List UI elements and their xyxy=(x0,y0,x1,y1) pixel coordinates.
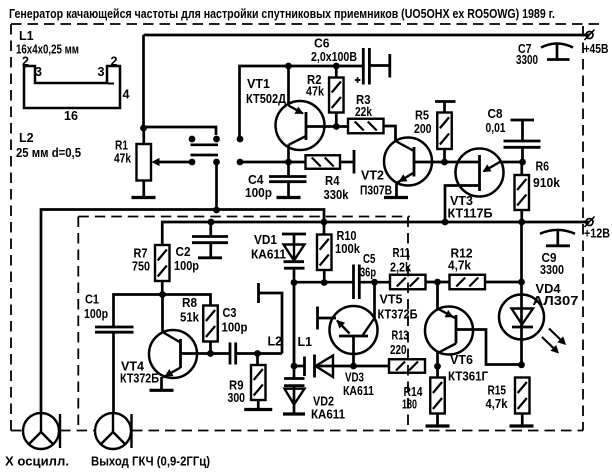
node VD1-L1 junction xyxy=(291,279,298,286)
switch contact row2 xyxy=(189,159,244,166)
label C2 xyxy=(174,245,199,273)
label R10 xyxy=(335,229,360,256)
label VT2 xyxy=(360,169,392,198)
capacitor C9 xyxy=(540,230,575,246)
svg-text:VT6: VT6 xyxy=(450,353,473,367)
dashed enclosure right edge xyxy=(582,26,584,431)
svg-text:100p: 100p xyxy=(174,259,199,273)
node VT1 emitter junction xyxy=(285,63,292,70)
label C9 xyxy=(540,251,564,277)
label R5 xyxy=(414,109,432,137)
svg-text:51k: 51k xyxy=(180,311,199,325)
jack X oscilloscope xyxy=(23,413,60,449)
resistor R2 xyxy=(329,66,344,127)
label R7 xyxy=(132,247,150,274)
diode VD1 xyxy=(282,234,306,283)
VT1 collector lead xyxy=(289,136,307,162)
resistor R15 xyxy=(515,378,530,426)
svg-text:2: 2 xyxy=(22,55,29,69)
resistor R7 xyxy=(155,245,170,295)
diode VD2 xyxy=(284,366,305,414)
ground R14 xyxy=(426,424,450,427)
svg-text:3: 3 xyxy=(98,65,105,79)
label VT3 xyxy=(448,194,493,221)
capacitor C5 xyxy=(354,265,360,300)
resistor R5 xyxy=(435,102,456,163)
label C5 xyxy=(360,252,376,280)
node VT6 emitter junction xyxy=(434,279,441,286)
resistor R6 xyxy=(515,162,530,222)
svg-text:R4: R4 xyxy=(325,174,340,188)
node R2 top junction xyxy=(333,63,340,70)
svg-text:+12В: +12В xyxy=(584,227,610,241)
svg-text:910k: 910k xyxy=(533,176,560,190)
svg-text:R11: R11 xyxy=(393,246,411,260)
dim 2 right xyxy=(111,55,118,69)
wire VD4 column xyxy=(520,222,523,365)
wire R1 top to switch xyxy=(144,127,217,135)
coil L1 outline drawing xyxy=(24,66,120,108)
svg-text:VT2: VT2 xyxy=(361,169,384,183)
label C8 xyxy=(486,107,506,135)
label VD3 xyxy=(343,371,374,399)
svg-text:+45В: +45В xyxy=(584,42,609,56)
wire C3 to L2 xyxy=(236,352,282,355)
wire upper feed xyxy=(240,66,364,139)
label C1 xyxy=(84,293,108,322)
svg-text:C6: C6 xyxy=(314,37,330,51)
svg-text:R1: R1 xyxy=(115,139,128,153)
svg-text:25 мм d=0,5: 25 мм d=0,5 xyxy=(16,146,81,160)
dashed enclosure top edge xyxy=(11,23,600,25)
wire VT3 emitter row xyxy=(445,161,480,164)
svg-text:L2: L2 xyxy=(19,131,34,145)
label VD4 xyxy=(533,282,579,308)
VT5 emitter arrow xyxy=(337,320,350,334)
node VD4 junction xyxy=(518,279,525,286)
svg-text:П307В: П307В xyxy=(360,184,392,198)
svg-text:750: 750 xyxy=(132,260,150,274)
inner dashed divider xyxy=(407,217,409,431)
svg-text:C8: C8 xyxy=(488,107,503,121)
ground R15 xyxy=(510,424,534,427)
label R4 xyxy=(324,174,349,202)
switch contact row1 xyxy=(189,136,244,143)
svg-text:X осцилл.: X осцилл. xyxy=(5,455,69,469)
resistor R3 xyxy=(348,119,384,134)
VT1 base lead xyxy=(306,125,348,128)
label 16x4x0,25 мм xyxy=(16,43,79,57)
svg-text:КА611: КА611 xyxy=(251,248,286,262)
resistor R11 xyxy=(390,275,426,290)
svg-text:L2: L2 xyxy=(268,335,283,349)
inner dashed box top edge xyxy=(78,216,410,218)
wire oscillator row xyxy=(294,281,390,284)
svg-text:VT5: VT5 xyxy=(380,293,403,307)
svg-text:47k: 47k xyxy=(114,152,131,166)
wire rail A xyxy=(41,210,324,414)
wire +12V rail xyxy=(162,222,589,245)
VT4 collector lead xyxy=(163,295,181,343)
ground R9 xyxy=(244,408,272,411)
svg-text:Выход ГКЧ (0,9-2ГГц): Выход ГКЧ (0,9-2ГГц) xyxy=(91,455,210,469)
VT3 b1 wire xyxy=(500,161,523,164)
svg-text:3300: 3300 xyxy=(540,263,564,277)
node switch-railA junction xyxy=(213,207,220,214)
svg-text:C3: C3 xyxy=(223,306,237,320)
svg-text:3300: 3300 xyxy=(516,53,538,67)
ground R1 xyxy=(132,196,156,199)
svg-text:VD2: VD2 xyxy=(313,395,334,409)
label VD1 xyxy=(251,233,286,262)
svg-text:Генератор качающейся частоты д: Генератор качающейся частоты для настрой… xyxy=(9,7,555,21)
VT5 base lead xyxy=(318,317,337,320)
resistor R8 xyxy=(203,306,218,354)
label C7 xyxy=(516,42,538,67)
VT5 emitter lead xyxy=(352,336,355,366)
wire switch pole2 down xyxy=(215,162,218,210)
label L1 xyxy=(19,29,34,43)
wire VD3-R13 row xyxy=(354,365,390,368)
label VT6 xyxy=(448,353,488,384)
node R5 bottom junction xyxy=(441,159,448,166)
svg-text:3: 3 xyxy=(35,65,42,79)
resistor R1 potentiometer xyxy=(137,128,152,197)
svg-text:100k: 100k xyxy=(335,242,360,256)
VT2 base bar xyxy=(413,147,416,177)
VT2 emitter lead xyxy=(397,173,415,198)
transistor VT2 circle xyxy=(384,138,432,186)
svg-text:220: 220 xyxy=(390,343,407,357)
transistor VT4 circle xyxy=(149,330,197,378)
switch blade1 xyxy=(191,143,219,146)
transistor VT1 circle xyxy=(276,101,325,150)
label R8 xyxy=(180,296,199,325)
resistor R13 xyxy=(389,359,425,373)
svg-text:R7: R7 xyxy=(134,247,148,261)
svg-text:КА611: КА611 xyxy=(343,384,374,398)
dim 4 xyxy=(123,88,130,102)
svg-text:0,01: 0,01 xyxy=(486,121,506,135)
svg-text:47k: 47k xyxy=(306,85,324,99)
node C2 top junction xyxy=(208,219,215,226)
dim 2 left xyxy=(22,55,29,69)
svg-text:4: 4 xyxy=(123,88,130,102)
label C3 xyxy=(222,306,248,335)
svg-text:R10: R10 xyxy=(337,229,357,243)
capacitor C8 xyxy=(504,120,541,162)
terminal +45V xyxy=(585,30,595,41)
svg-text:КТ117Б: КТ117Б xyxy=(448,207,493,221)
diode VD4 triangle xyxy=(512,309,534,328)
transistor VT5 circle xyxy=(330,306,378,354)
svg-text:VD3: VD3 xyxy=(345,371,364,385)
svg-text:КТ502Д: КТ502Д xyxy=(246,92,286,106)
capacitor C7 xyxy=(541,44,573,60)
node C8-R6 junction xyxy=(519,159,526,166)
label R9 xyxy=(228,379,246,406)
svg-text:2,2k: 2,2k xyxy=(390,261,411,275)
node R8 bottom junction xyxy=(207,350,214,357)
node R2 bottom junction xyxy=(333,123,340,130)
svg-text:C2: C2 xyxy=(176,245,191,259)
VT1 base bar xyxy=(305,112,308,140)
label R11 xyxy=(390,246,411,275)
node R7 bottom junction xyxy=(159,291,166,298)
VT6 base lead xyxy=(456,330,522,365)
svg-text:2: 2 xyxy=(111,55,118,69)
resistor R10 xyxy=(317,235,332,283)
label L2 xyxy=(268,335,283,349)
resistor R9 xyxy=(251,354,266,410)
ground VT2 xyxy=(384,196,408,199)
wire VT4 collector row xyxy=(114,295,211,328)
svg-text:330k: 330k xyxy=(324,188,349,202)
VT3 emitter arrow xyxy=(483,162,501,173)
dashed enclosure bottom edge xyxy=(11,430,583,432)
VT6 emitter lead xyxy=(438,282,457,319)
VT1 emitter lead xyxy=(289,66,304,114)
svg-text:36p: 36p xyxy=(360,266,376,280)
VT6 collector lead xyxy=(438,344,457,367)
label 25 мм d=0,5 xyxy=(16,146,81,160)
dashed enclosure left edge xyxy=(10,24,12,431)
svg-text:АЛ307: АЛ307 xyxy=(533,294,579,308)
label R1 xyxy=(114,139,131,166)
transistor VT6 circle xyxy=(425,307,473,355)
wire base row xyxy=(181,352,231,355)
wire collector row xyxy=(240,161,306,164)
node R9 top junction xyxy=(254,350,261,357)
jack GKCh output xyxy=(95,413,132,449)
label L2 xyxy=(19,131,34,145)
ground VD2 xyxy=(283,412,305,415)
label R13 xyxy=(390,329,409,358)
VT3 b2 wire xyxy=(445,186,480,223)
svg-text:2,0x100В: 2,0x100В xyxy=(311,50,357,64)
label L1 line xyxy=(298,335,313,349)
coil L1 line xyxy=(293,283,296,367)
R1 wiper arrow xyxy=(152,158,194,166)
VT5 base bar xyxy=(316,307,319,330)
svg-text:100p: 100p xyxy=(222,321,248,335)
VT5 inner bar xyxy=(339,335,368,338)
node R6 rail junction xyxy=(518,219,525,226)
C6 plus sign xyxy=(355,77,361,83)
svg-text:VT1: VT1 xyxy=(247,77,270,91)
svg-text:R15: R15 xyxy=(488,384,507,398)
wire R11-R12 xyxy=(426,281,450,284)
label VT5 xyxy=(378,293,418,322)
title text xyxy=(9,7,555,21)
capacitor C6 xyxy=(363,48,390,85)
terminal +12V xyxy=(585,217,595,228)
svg-text:C4: C4 xyxy=(248,173,264,187)
svg-text:180: 180 xyxy=(402,398,417,412)
dim 3 left xyxy=(35,65,42,79)
diode VD4 circle xyxy=(499,295,544,340)
svg-text:КТ372Б: КТ372Б xyxy=(378,308,418,322)
node VT3b2 rail junction xyxy=(442,219,449,226)
svg-text:C1: C1 xyxy=(85,293,99,307)
svg-text:100p: 100p xyxy=(84,307,108,321)
VT3 base bar xyxy=(478,155,481,191)
label +45В xyxy=(584,42,609,56)
svg-text:100p: 100p xyxy=(245,186,272,200)
capacitor C1 xyxy=(95,327,134,413)
VT4 emitter lead xyxy=(162,368,181,391)
svg-text:4,7k: 4,7k xyxy=(448,259,471,273)
node R10 bottom junction xyxy=(321,279,328,286)
wire R12 right xyxy=(485,281,522,284)
label R14 xyxy=(402,385,423,412)
label +12В xyxy=(584,227,610,241)
svg-text:L1: L1 xyxy=(298,335,313,349)
node VT1 collector junction xyxy=(285,159,292,166)
VT4 base bar xyxy=(179,339,182,368)
svg-text:4,7k: 4,7k xyxy=(486,397,508,411)
transistor VT3 circle xyxy=(456,149,504,197)
node R1 top junction xyxy=(140,125,147,132)
VT2 collector lead xyxy=(396,141,415,151)
dim 3 right xyxy=(98,65,105,79)
label VT1 xyxy=(246,77,286,106)
label VD2 xyxy=(311,395,345,422)
VT2 base lead xyxy=(414,161,445,164)
label X осцилл. xyxy=(5,455,69,469)
svg-text:R13: R13 xyxy=(392,329,409,343)
svg-text:R8: R8 xyxy=(182,296,197,310)
label R12 xyxy=(448,247,473,273)
svg-text:L1: L1 xyxy=(19,29,34,43)
VT6 base bar xyxy=(455,315,458,344)
svg-text:200: 200 xyxy=(414,122,432,136)
label R15 xyxy=(486,384,508,412)
label R3 xyxy=(355,93,372,119)
resistor R12 xyxy=(450,275,486,290)
wire +45V top rail xyxy=(144,35,590,128)
label R2 xyxy=(306,73,324,99)
diode VD3 xyxy=(294,355,354,378)
switch blade2 xyxy=(191,154,219,157)
inner dashed box left edge xyxy=(77,217,79,431)
svg-text:300: 300 xyxy=(228,391,246,405)
capacitor C4 xyxy=(269,162,307,197)
svg-text:C5: C5 xyxy=(363,252,376,266)
node VT5 collector junction xyxy=(371,279,378,286)
dim 16 xyxy=(64,109,78,123)
svg-text:КА611: КА611 xyxy=(311,408,345,422)
ground C4 xyxy=(277,196,301,199)
resistor R14 xyxy=(430,366,445,425)
node VT5 emitter junction xyxy=(350,363,357,370)
VT5 collector lead xyxy=(363,282,375,335)
R4 right open bar xyxy=(340,150,354,174)
node railA-railB junction xyxy=(321,219,328,226)
node VD3-L1 junction xyxy=(291,363,298,370)
svg-text:R5: R5 xyxy=(415,109,429,123)
label VT4 xyxy=(120,360,159,386)
capacitor C3 xyxy=(230,343,236,365)
capacitor C2 xyxy=(192,222,228,258)
label C4 xyxy=(245,173,272,200)
wire R3 to VT2 collector xyxy=(384,126,396,141)
ground VT4 xyxy=(150,389,174,392)
svg-text:R6: R6 xyxy=(536,160,550,174)
resistor R4 xyxy=(306,155,341,169)
svg-text:КТ372Б: КТ372Б xyxy=(120,372,159,386)
svg-text:22k: 22k xyxy=(355,105,372,119)
label R6 xyxy=(533,160,560,191)
coil L2 xyxy=(259,283,283,354)
label Выход ГКЧ xyxy=(91,455,210,469)
node VD4-R15 junction xyxy=(518,361,525,368)
label C6 xyxy=(311,37,357,65)
VD4 light arrows xyxy=(542,329,566,354)
svg-text:КТ361Г: КТ361Г xyxy=(448,370,488,384)
svg-text:VD1: VD1 xyxy=(254,233,277,247)
node R13-R14 junction xyxy=(434,363,441,370)
svg-text:16: 16 xyxy=(64,109,78,123)
